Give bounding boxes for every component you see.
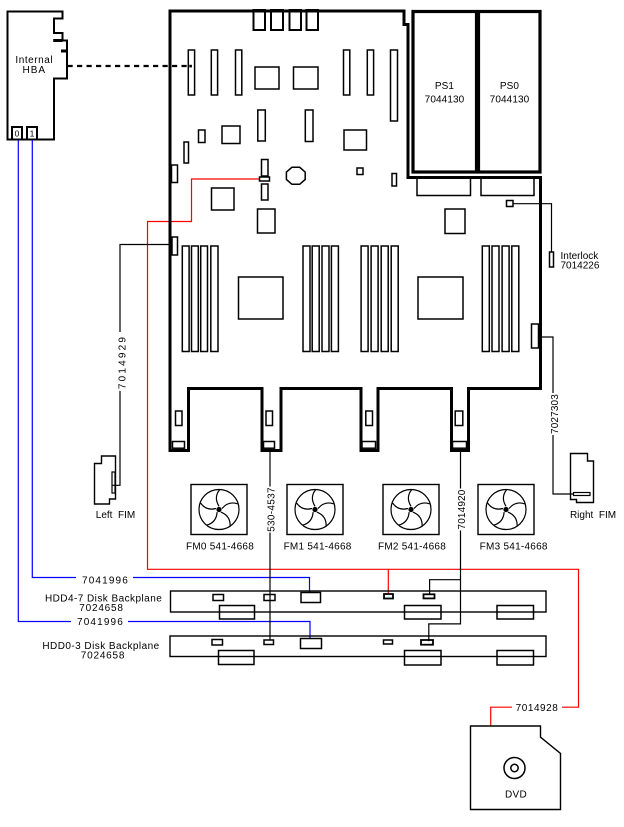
chip (211,188) bbox=[212, 188, 235, 210]
connector stack upper bbox=[262, 160, 269, 177]
svg-text:FM0 541-4668: FM0 541-4668 bbox=[186, 542, 254, 553]
dotted link HBA to motherboard bbox=[68, 65, 189, 67]
chip (257,209) bbox=[258, 209, 276, 233]
fan FM3 bbox=[478, 485, 534, 535]
Left FIM outline bbox=[95, 456, 116, 504]
leg2 slot bbox=[266, 411, 273, 426]
HDD0-3 top connector 5 (black attach) bbox=[421, 640, 433, 645]
small slot (392,173) bbox=[392, 174, 397, 187]
svg-text:7044130: 7044130 bbox=[425, 95, 465, 106]
HBA bracket tick 2 bbox=[61, 50, 67, 53]
slot D bbox=[344, 50, 350, 95]
svg-text:7024658: 7024658 bbox=[81, 650, 125, 661]
HBA bracket tick 1 bbox=[53, 39, 62, 42]
PSU connector 2 bbox=[481, 178, 534, 196]
svg-text:Left FIM: Left FIM bbox=[96, 510, 135, 521]
wire blue 1 (HBA port1 to HDD4-7 backplane) bbox=[32, 140, 309, 593]
wire red main (motherboard to DVD) bbox=[148, 179, 579, 726]
fan FM2 bbox=[383, 485, 439, 535]
HDD0-3 bottom connector 3 bbox=[497, 651, 534, 666]
Right FIM outline bbox=[571, 454, 594, 503]
chip (445,209) bbox=[445, 209, 465, 234]
mid slot 1 bbox=[258, 110, 266, 141]
HDD4-7 top connector 1 bbox=[213, 595, 224, 601]
wire black 530-4537 (leg2 to HDD0-3) bbox=[269, 448, 271, 640]
DIMM group 4 bbox=[482, 246, 519, 352]
small slot (198,130) bbox=[199, 130, 206, 143]
svg-text:PS0: PS0 bbox=[500, 81, 520, 92]
interlock source box bbox=[507, 201, 514, 207]
HDD4-7 top connector 2 bbox=[264, 595, 275, 601]
slot A bbox=[188, 50, 194, 95]
Right FIM connector bar bbox=[574, 493, 591, 496]
HBA port 1 box bbox=[27, 127, 37, 140]
connector stack lower bbox=[262, 184, 269, 200]
svg-text:7027303: 7027303 bbox=[550, 394, 561, 434]
svg-text:7041996: 7041996 bbox=[82, 575, 129, 586]
DVD disc inner bbox=[511, 764, 518, 771]
square chip 1 bbox=[255, 67, 279, 89]
label 7041996 upper bbox=[76, 571, 133, 584]
slot E bbox=[367, 50, 373, 95]
edge connector (172,237) black wire bbox=[172, 237, 178, 255]
svg-text:0: 0 bbox=[15, 129, 20, 139]
CPU 1 bbox=[239, 277, 284, 319]
wire red branch to HDD4-7 bbox=[387, 569, 389, 594]
svg-text:FM3 541-4668: FM3 541-4668 bbox=[480, 542, 548, 553]
chip (344,130) bbox=[344, 130, 367, 150]
slot B bbox=[211, 50, 217, 95]
slot F tall bbox=[391, 50, 398, 121]
slot C bbox=[236, 50, 242, 95]
svg-text:7024658: 7024658 bbox=[79, 603, 123, 614]
svg-text:FM2 541-4668: FM2 541-4668 bbox=[378, 542, 446, 553]
DIMM group 1 bbox=[182, 246, 218, 352]
leg4 connector bbox=[453, 442, 467, 449]
leg2 connector bbox=[264, 442, 275, 449]
HDD0-3 top connector 2 (black attach) bbox=[264, 640, 274, 645]
HDD4-7 backplane bbox=[171, 591, 547, 612]
fan FM0 bbox=[191, 485, 247, 535]
wire black 7027303 (motherboard to Right FIM) bbox=[539, 337, 574, 494]
leg3 connector bbox=[362, 442, 376, 449]
svg-text:HBA: HBA bbox=[23, 65, 47, 76]
Left FIM connector bar bbox=[112, 472, 115, 493]
HDD0-3 top connector 4 bbox=[384, 640, 393, 644]
slot (184,142) bbox=[184, 142, 189, 163]
svg-text:7014226: 7014226 bbox=[561, 261, 600, 272]
svg-text:7044130: 7044130 bbox=[490, 95, 530, 106]
HDD4-7 bottom connector 1 bbox=[220, 606, 255, 620]
wire blue 0 (HBA port0 to HDD0-3 backplane) bbox=[18, 140, 310, 639]
interlock component bbox=[550, 252, 554, 267]
HDD4-7 bottom connector 3 bbox=[497, 606, 534, 620]
right edge connector (7027303 attach) bbox=[532, 324, 539, 348]
HDD0-3 bottom connector 1 bbox=[219, 651, 255, 665]
svg-text:7014920: 7014920 bbox=[457, 489, 468, 529]
top tab 4 bbox=[307, 10, 319, 30]
label 7014928 bbox=[512, 699, 562, 711]
wire black interlock (PSU box to interlock) bbox=[513, 204, 552, 252]
DIMM group 3 bbox=[361, 246, 398, 352]
svg-text:Right FIM: Right FIM bbox=[570, 510, 616, 521]
HDD4-7 top connector 4 (red attach) bbox=[384, 594, 393, 599]
HDD0-3 bottom connector 2 bbox=[405, 651, 442, 666]
square chip 2 bbox=[294, 67, 319, 89]
connector stack bar (red wire attach) bbox=[260, 177, 270, 181]
HDD0-3 backplane bbox=[170, 636, 546, 657]
HBA port 0 box bbox=[12, 127, 22, 140]
DVD drive outline bbox=[471, 726, 561, 810]
DIMM group 2 bbox=[303, 246, 338, 352]
power supply PS0 bbox=[479, 12, 541, 173]
leg4 slot bbox=[455, 411, 463, 426]
svg-text:7041996: 7041996 bbox=[77, 617, 124, 628]
leg1 slot bbox=[176, 411, 183, 426]
fan FM1 bbox=[287, 485, 343, 535]
svg-text:530-4537: 530-4537 bbox=[267, 487, 278, 532]
mid slot 2 bbox=[305, 110, 313, 142]
svg-text:1: 1 bbox=[30, 129, 35, 139]
svg-text:FM1 541-4668: FM1 541-4668 bbox=[284, 542, 352, 553]
HDD4-7 top connector 5 (black attach) bbox=[424, 594, 435, 598]
wire black 7014920 (leg4 to backplanes) bbox=[429, 448, 461, 641]
internal HBA card outline bbox=[8, 12, 68, 140]
leg3 slot bbox=[366, 411, 373, 426]
PSU connector 1 bbox=[417, 178, 471, 196]
power supply PS1 bbox=[413, 12, 477, 173]
svg-text:7014929: 7014929 bbox=[117, 335, 128, 389]
leg1 connector bbox=[173, 442, 185, 449]
top tab 2 bbox=[271, 10, 283, 30]
svg-text:7014928: 7014928 bbox=[516, 703, 559, 714]
CPU 2 bbox=[418, 277, 463, 319]
HDD0-3 top connector 1 bbox=[212, 640, 223, 646]
motherboard outline bbox=[170, 11, 541, 451]
chip (222,126) bbox=[222, 126, 240, 144]
wire black branch to HDD4-7 bbox=[430, 580, 461, 595]
HDD0-3 top connector 3 (blue attach) bbox=[301, 639, 322, 649]
HDD4-7 top connector 3 (blue attach) bbox=[301, 593, 321, 603]
label 7041996 lower bbox=[71, 615, 128, 628]
wire black 7014929 (motherboard to Left FIM) bbox=[113, 245, 171, 486]
svg-text:PS1: PS1 bbox=[435, 81, 455, 92]
edge connector (172,165) bbox=[172, 165, 178, 183]
HDD4-7 bottom connector 2 bbox=[405, 606, 442, 620]
top tab 3 bbox=[290, 10, 302, 30]
top tab 1 bbox=[254, 10, 266, 30]
octagon pad bbox=[286, 167, 305, 184]
tiny square (357,168) bbox=[357, 168, 363, 175]
svg-text:DVD: DVD bbox=[505, 790, 527, 801]
DVD disc outer bbox=[504, 758, 525, 779]
